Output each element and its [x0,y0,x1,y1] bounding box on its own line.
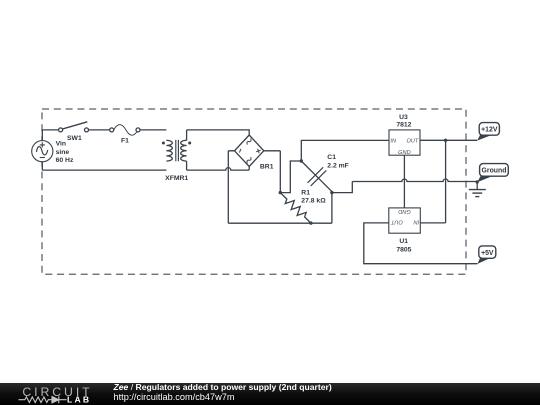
svg-text:+12V: +12V [481,127,498,134]
transformer XFMR1 [162,140,191,161]
wire: bridge bottom lead [248,167,250,171]
svg-text:XFMR1: XFMR1 [165,175,188,182]
svg-text:2.2 mF: 2.2 mF [327,162,349,169]
wire: bridge negative (left) lead and drop to bottom rail [228,151,234,223]
capacitor C1 [294,153,341,200]
wire: C1 bottom node to ground rail [332,182,352,193]
svg-text:F1: F1 [121,137,129,144]
switch SW1 [59,122,89,132]
svg-text:BR1: BR1 [260,163,274,170]
svg-text:60 Hz: 60 Hz [56,157,74,164]
minus mark left [239,149,241,153]
svg-text:R1: R1 [301,189,310,196]
svg-text:OUT: OUT [406,139,418,145]
secondary winding [181,140,187,161]
ground symbol [469,182,486,197]
wire: U3 GND down to U1 GND [403,155,405,208]
junction node: C1 bottom [330,191,333,194]
junction node: U3 OUT branch [444,139,447,142]
svg-text:7805: 7805 [396,246,411,253]
wire: bridge positive (right) lead and drop to node A [264,151,281,193]
wire: U3 OUT to +12V flag [420,139,477,141]
wire: bottom AC rail source to XFMR1 primary bottom [42,169,166,171]
junction node A: bridge + / R1 / C1 [279,191,282,194]
wire: top AC rail from source to SW1 [42,129,59,131]
wire: U3 OUT down to U1 IN [421,140,446,223]
resistor R1 [277,190,314,227]
wire: XFMR1 secondary bottom lead [186,161,188,170]
wire: negative bottom rail [228,222,332,224]
svg-text:U1: U1 [399,238,408,245]
wire: C1 top node riser and DC rail to U3 IN [301,140,389,161]
wire: XFMR1 secondary top lead [186,130,188,140]
svg-text:U3: U3 [399,114,408,121]
svg-text:C1: C1 [327,154,336,161]
phase dot primary [162,142,165,145]
net flag +12V [477,123,499,141]
label R1 27.8 kOhm [301,189,326,204]
junction node: R1 bottom on negative rail [309,221,312,224]
svg-text:Vin: Vin [56,141,66,148]
junction node: ground flag [476,180,479,183]
wire: C1 bottom node drop to negative rail [331,193,333,224]
wire: ground rail with hops over GND and OUT drops [352,179,477,182]
regulator U3 7812 [389,130,420,156]
svg-text:7812: 7812 [396,122,411,129]
bridge rectifier BR1 [235,135,264,167]
svg-text:27.8 kΩ: 27.8 kΩ [301,197,326,204]
wire: source bottom lead [41,162,43,170]
primary winding [166,140,172,161]
wire: secondary top rail to bridge top [187,130,250,135]
svg-text:GND: GND [398,208,410,214]
wire: F1 to XFMR1 primary top [140,129,167,131]
wire: node A to C1 top node [280,161,301,193]
footer bar [0,383,540,405]
wire: U1 OUT to +5V flag [364,223,478,264]
net flag Ground [477,164,508,183]
label C1 2.2 mF [327,154,349,170]
svg-text:IN: IN [413,219,420,225]
svg-text:OUT: OUT [391,219,403,225]
svg-text:sine: sine [56,149,70,156]
label Vin sine 60 Hz [56,141,74,165]
core [176,140,179,161]
svg-text:+5V: +5V [481,250,494,257]
svg-text:Ground: Ground [482,168,507,175]
schematic dashed enclosure border [42,109,466,274]
CircuitLab logo [14,383,114,405]
svg-text:SW1: SW1 [67,135,82,142]
label U3 7812 [396,114,411,128]
wire: SW1 to F1 [88,129,110,131]
label U1 7805 [396,238,411,253]
wire: source top lead [41,130,43,141]
regulator U1 7805 [389,208,421,233]
~ mark bottom [246,157,252,163]
junction node: C1 top [300,159,303,162]
net flag +5V [477,246,495,264]
~ mark top [246,138,252,144]
voltage source V1 Vin [32,141,53,162]
phase dot secondary [188,142,191,145]
wire: secondary bottom rail to bridge bottom with hop over negative drop [187,168,250,171]
svg-text:IN: IN [390,139,397,145]
fuse F1 [110,125,140,136]
svg-text:LAB: LAB [67,395,91,405]
plus mark right [255,148,261,154]
